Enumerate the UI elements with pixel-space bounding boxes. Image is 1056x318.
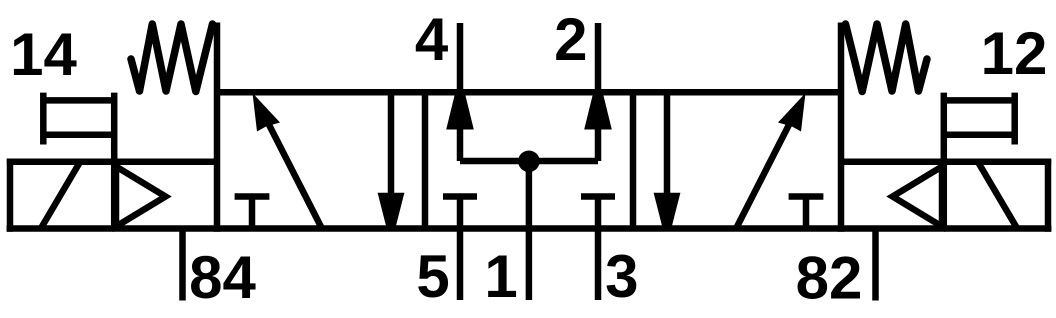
svg-text:84: 84	[189, 244, 256, 311]
svg-text:3: 3	[605, 243, 638, 310]
svg-text:4: 4	[415, 6, 449, 73]
svg-text:82: 82	[796, 245, 863, 312]
svg-text:2: 2	[554, 6, 587, 73]
svg-text:1: 1	[484, 243, 517, 310]
svg-text:12: 12	[981, 20, 1048, 87]
svg-text:5: 5	[416, 243, 449, 310]
svg-text:14: 14	[10, 21, 77, 88]
